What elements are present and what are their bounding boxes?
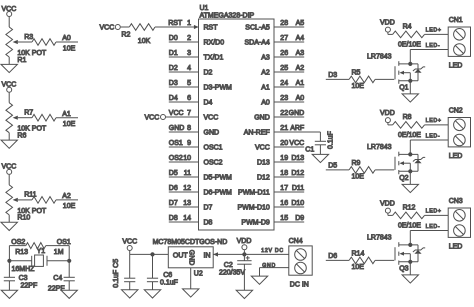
pin 28 A5 [245,20,304,32]
svg-text:Q3: Q3 [399,266,408,273]
svg-text:12V DC: 12V DC [261,248,283,254]
pin 19 D13 [257,155,304,167]
net label LED- [426,134,441,140]
svg-text:IN: IN [204,252,211,259]
svg-text:VCC: VCC [255,145,270,152]
wire [9,260,31,262]
svg-text:10: 10 [183,155,191,162]
svg-text:VCC: VCC [100,25,115,32]
svg-text:D2: D2 [204,70,213,77]
svg-text:21: 21 [280,125,288,132]
vdd symbol (main) [237,238,252,250]
svg-text:A3: A3 [261,55,270,62]
wire [375,169,394,171]
wire [129,251,131,255]
svg-text:10E: 10E [63,45,76,52]
resistor R3 10E [24,34,75,53]
svg-text:D1: D1 [169,50,178,57]
connector CN4 DC IN [289,238,313,289]
resistor R13 1M [15,243,63,256]
pin 13 D7 [169,200,213,212]
capacitor C4 22PF [48,275,75,292]
svg-text:13: 13 [183,200,191,207]
svg-text:VDD: VDD [380,19,395,26]
svg-text:LED+: LED+ [426,209,442,215]
svg-text:C6: C6 [163,272,172,279]
svg-text:5: 5 [187,80,191,87]
vdd symbol (CN3) [380,200,395,213]
vdd symbol (CN1) [380,19,395,32]
potentiometer R6 10K POT [6,103,47,140]
svg-text:10K: 10K [138,38,151,45]
potentiometer R1 10K POT [6,27,47,64]
svg-text:R12: R12 [403,204,416,211]
pin 22 GND [254,110,304,122]
net label A1 [62,111,71,118]
svg-text:DC IN: DC IN [290,281,309,288]
pin 12 D6 [169,185,232,197]
net label D3 [328,72,337,79]
svg-text:2: 2 [187,35,191,42]
svg-text:27: 27 [280,35,288,42]
wire [375,78,394,80]
svg-text:A1: A1 [62,111,71,118]
svg-text:LR7843: LR7843 [367,235,392,242]
body diode (Q3) [413,245,425,262]
pin 18 D12 [257,170,304,182]
svg-text:PWM-D9: PWM-D9 [241,220,269,227]
wire [152,254,154,278]
svg-text:LED: LED [449,243,463,250]
svg-text:0E/10E: 0E/10E [398,41,421,48]
ground [1,222,17,230]
pin 23 A0 [261,95,304,107]
net label LED- [426,43,441,49]
ground [1,140,17,148]
svg-text:LR7843: LR7843 [367,54,392,61]
svg-text:TX/D1: TX/D1 [204,55,224,62]
regulator U2 MC78M05CDTGOS-ND [153,239,228,278]
svg-text:R9: R9 [352,160,361,167]
net label LED- [426,224,441,230]
net label OS1 [57,239,71,246]
svg-text:U2: U2 [194,271,203,278]
svg-text:A2: A2 [62,193,71,200]
svg-text:OSC2: OSC2 [204,160,223,167]
resistor R14 10E [349,251,375,271]
svg-text:6: 6 [187,95,191,102]
vcc symbol (R6 top) [2,82,17,93]
svg-text:LED+: LED+ [426,118,442,124]
net label A2 [62,193,71,200]
svg-text:VCC: VCC [204,115,219,122]
wire [326,259,349,261]
svg-text:D6: D6 [328,253,337,260]
capacitor C5 0.1uF [113,259,136,288]
pin 3 D1 [169,50,224,62]
svg-text:D12: D12 [257,175,270,182]
svg-text:D3: D3 [328,72,337,79]
svg-text:10E: 10E [352,83,365,90]
svg-text:VCC: VCC [122,239,137,246]
wire [129,282,131,290]
svg-text:R11: R11 [24,192,36,199]
net label GND (dc in) [262,263,276,269]
svg-text:A2: A2 [296,65,305,72]
svg-text:GND: GND [289,110,305,117]
wire [190,268,192,289]
ground [236,290,252,298]
svg-text:R8: R8 [403,114,412,121]
svg-text:20: 20 [280,140,288,147]
svg-text:ARF: ARF [290,125,304,132]
svg-text:9: 9 [187,140,191,147]
connector CN2 LED [448,107,470,160]
svg-text:16: 16 [280,200,288,207]
svg-text:0E/10E: 0E/10E [398,132,421,139]
body diode (Q2) [413,154,425,171]
svg-text:12: 12 [183,185,191,192]
svg-text:24: 24 [280,80,288,87]
wire [152,282,154,290]
svg-text:D8: D8 [169,215,178,222]
ground [1,64,17,72]
svg-text:R5: R5 [352,70,361,77]
svg-text:LED-: LED- [426,224,441,230]
svg-text:D3: D3 [169,80,178,87]
resistor R12 0E/10E [393,204,425,229]
ground [402,184,418,192]
ground [402,275,418,283]
ground [144,290,160,298]
svg-text:ATMEGA328-DIP: ATMEGA328-DIP [200,13,255,20]
svg-text:D13: D13 [257,160,270,167]
pin 2 D0 [169,35,224,47]
svg-text:GND: GND [254,115,270,122]
wire [9,245,25,247]
wire [259,268,261,277]
resistor R11 10E [24,192,75,211]
wire [410,49,448,51]
svg-text:OS2: OS2 [11,239,25,246]
wire [425,214,449,216]
pin 10 OS2 [169,155,223,167]
svg-text:LED: LED [449,62,463,69]
svg-text:GND: GND [169,125,185,132]
svg-text:VCC: VCC [289,140,304,147]
vcc symbol (pin 7) [145,114,166,121]
ic U1 ATMEGA328-DIP body [199,5,275,230]
svg-text:1M: 1M [54,249,64,256]
pin 15 D9 [241,215,304,227]
pin 5 D3 [169,80,232,92]
svg-text:D13: D13 [291,155,304,162]
svg-text:LR7843: LR7843 [367,144,392,151]
svg-text:CN1: CN1 [449,17,463,24]
wire [326,169,349,171]
net label OS2 [11,239,25,246]
svg-text:SCL-A5: SCL-A5 [245,25,270,32]
connector CN1 LED [448,17,470,70]
wire [8,215,10,222]
wire [326,78,349,80]
net label 12V DC [261,248,283,254]
mosfet Q3 LR7843 [367,235,418,273]
svg-text:D5: D5 [169,170,178,177]
ground [1,290,17,298]
wire [8,281,10,290]
svg-text:VDD: VDD [237,238,252,245]
wire [260,267,289,269]
pin 14 D8 [169,215,213,227]
wire [56,41,78,43]
svg-text:RX/D0: RX/D0 [204,40,225,47]
svg-text:CN4: CN4 [289,238,303,245]
wire [388,123,393,125]
svg-text:LED+: LED+ [426,28,442,34]
wire [409,50,411,64]
svg-text:LED-: LED- [426,134,441,140]
ground [402,94,418,102]
wire [67,246,71,278]
wire [7,246,11,278]
wire [8,17,10,27]
svg-text:10E: 10E [352,174,365,181]
resistor R5 10E [349,70,375,90]
svg-text:Q1: Q1 [399,85,408,92]
svg-text:VCC: VCC [145,114,160,121]
capacitor C2 220/35V electrolytic [219,256,252,277]
capacitor C6 0.1uF [147,272,178,286]
svg-text:R2: R2 [121,31,130,38]
svg-text:OS1: OS1 [169,140,183,147]
svg-text:D6-PWM: D6-PWM [204,190,233,197]
svg-text:22PF: 22PF [21,283,38,290]
svg-text:R6: R6 [17,133,26,140]
svg-text:0.1uF C5: 0.1uF C5 [113,259,120,288]
svg-text:23: 23 [280,95,288,102]
resistor R2 10K [121,24,155,46]
svg-text:AN-REF: AN-REF [244,130,270,137]
resistor R7 10E [24,110,75,129]
wire [8,133,10,140]
pin 11 D5 [169,170,232,182]
svg-text:RST: RST [204,25,219,32]
wire [409,231,411,245]
connector CN3 LED [448,198,470,251]
svg-text:RST: RST [168,20,183,27]
wire [319,132,321,141]
svg-text:D11: D11 [292,185,304,192]
svg-text:A0: A0 [261,100,270,107]
ground [251,276,267,284]
svg-text:A5: A5 [296,20,305,27]
wire [410,139,448,141]
wire [375,259,394,261]
svg-text:PWM-D11: PWM-D11 [238,190,270,197]
vcc symbol (R2 pull-up) [100,25,121,32]
ground [312,154,328,162]
svg-text:A0: A0 [62,35,71,42]
svg-text:A1: A1 [261,85,270,92]
body diode (Q1) [413,64,425,81]
pin 9 OS1 [169,140,223,152]
svg-text:D7: D7 [204,205,213,212]
vcc symbol (regulator out) [122,239,137,251]
svg-text:R7: R7 [24,110,33,117]
svg-text:D6: D6 [169,185,178,192]
svg-text:D8: D8 [204,220,213,227]
svg-text:A1: A1 [296,80,305,87]
vcc symbol (R10 top) [2,164,17,175]
mosfet Q1 LR7843 [367,54,418,92]
svg-text:1: 1 [187,20,191,27]
net label D6 [328,253,337,260]
svg-text:14: 14 [183,215,191,222]
wire [410,230,448,232]
wire [388,214,393,216]
svg-text:C4: C4 [53,275,62,282]
net label LED+ [426,28,442,34]
svg-text:U1: U1 [200,5,209,12]
wire [47,260,69,262]
svg-text:D5: D5 [328,163,337,170]
svg-text:28: 28 [280,20,288,27]
capacitor C1 0.1uF [305,131,334,154]
vdd symbol (CN2) [380,110,395,123]
wire [425,33,449,35]
wire [243,250,245,254]
wire [121,26,130,28]
svg-text:D7: D7 [169,200,178,207]
svg-text:D2: D2 [169,65,178,72]
svg-text:8: 8 [187,125,191,132]
svg-text:0.1uF: 0.1uF [328,131,335,149]
wire [243,254,245,260]
svg-text:LED-: LED- [426,43,441,49]
svg-text:C2: C2 [224,262,233,269]
wire [388,33,393,35]
svg-text:A3: A3 [296,50,305,57]
svg-text:10E: 10E [63,203,76,210]
pin 7 VCC [166,110,218,122]
svg-text:19: 19 [280,155,288,162]
pin 6 D4 [169,95,213,107]
svg-text:D4: D4 [169,95,178,102]
pin 8 GND [169,125,219,137]
svg-text:Q2: Q2 [399,175,408,182]
svg-text:D4: D4 [204,100,213,107]
net label D5 [328,163,337,170]
svg-text:0E/10E: 0E/10E [398,222,421,229]
svg-text:GND: GND [188,250,195,266]
wire [319,145,321,155]
svg-text:GND: GND [204,130,220,137]
pin 25 A2 [261,65,304,77]
wire [56,199,78,201]
svg-text:18: 18 [280,170,288,177]
net label LED+ [426,209,442,215]
svg-text:22: 22 [280,110,288,117]
svg-text:R3: R3 [24,34,33,41]
svg-text:R10: R10 [17,215,30,222]
svg-text:3: 3 [187,50,191,57]
wire [243,264,245,290]
wire [409,81,411,94]
wire [409,140,411,154]
wire [130,252,169,256]
wire [68,281,70,290]
svg-text:10E: 10E [352,264,365,271]
svg-text:17: 17 [280,185,288,192]
svg-text:D10: D10 [291,200,304,207]
wire [8,93,10,103]
svg-text:OUT: OUT [173,252,189,259]
svg-text:SDA-A4: SDA-A4 [245,40,270,47]
net label A0 [62,35,71,42]
svg-text:R13: R13 [15,249,28,256]
svg-text:A4: A4 [296,35,305,42]
wire [409,262,411,275]
mosfet Q2 LR7843 [367,144,418,182]
vcc symbol (R1 top) [2,6,17,17]
svg-text:4: 4 [187,65,191,72]
crystal Y1 16MHZ [12,248,48,273]
svg-text:OS1: OS1 [57,239,71,246]
potentiometer R10 10K POT [6,185,47,222]
svg-text:C3: C3 [19,275,28,282]
net label LED+ [426,118,442,124]
svg-text:D9: D9 [295,215,304,222]
wire [425,124,449,126]
ground [61,290,77,298]
resistor R8 0E/10E [393,114,425,139]
svg-text:220/35V: 220/35V [219,270,245,277]
svg-text:LED: LED [449,153,463,160]
svg-text:D3-PWM: D3-PWM [204,85,233,92]
svg-text:VDD: VDD [380,110,395,117]
pin 24 A1 [261,80,304,92]
svg-text:A0: A0 [296,95,305,102]
svg-text:26: 26 [280,50,288,57]
svg-text:R1: R1 [17,57,26,64]
svg-text:CN3: CN3 [449,198,463,205]
wire [8,175,10,185]
svg-text:16MHZ: 16MHZ [12,266,36,273]
svg-text:MC78M05CDTGOS-ND: MC78M05CDTGOS-ND [153,239,228,246]
pin 16 D10 [238,200,305,212]
svg-text:10E: 10E [63,121,76,128]
pin 26 A3 [261,50,304,62]
svg-text:R14: R14 [352,251,365,258]
svg-text:A2: A2 [261,70,270,77]
svg-text:11: 11 [184,170,191,177]
pin 27 A4 [245,35,305,47]
pin 20 VCC [255,140,304,152]
pin 4 D2 [169,65,213,77]
svg-text:VDD: VDD [380,200,395,207]
ground [183,289,199,297]
svg-text:0.1uF: 0.1uF [160,279,178,286]
svg-text:D5-PWM: D5-PWM [204,175,233,182]
pin 1 RST [168,20,218,32]
svg-text:7: 7 [187,110,191,117]
svg-text:C1: C1 [305,147,314,154]
svg-text:25: 25 [280,65,288,72]
resistor R4 0E/10E [393,23,425,48]
capacitor C3 22PF [4,275,37,289]
svg-text:CN2: CN2 [449,107,463,114]
